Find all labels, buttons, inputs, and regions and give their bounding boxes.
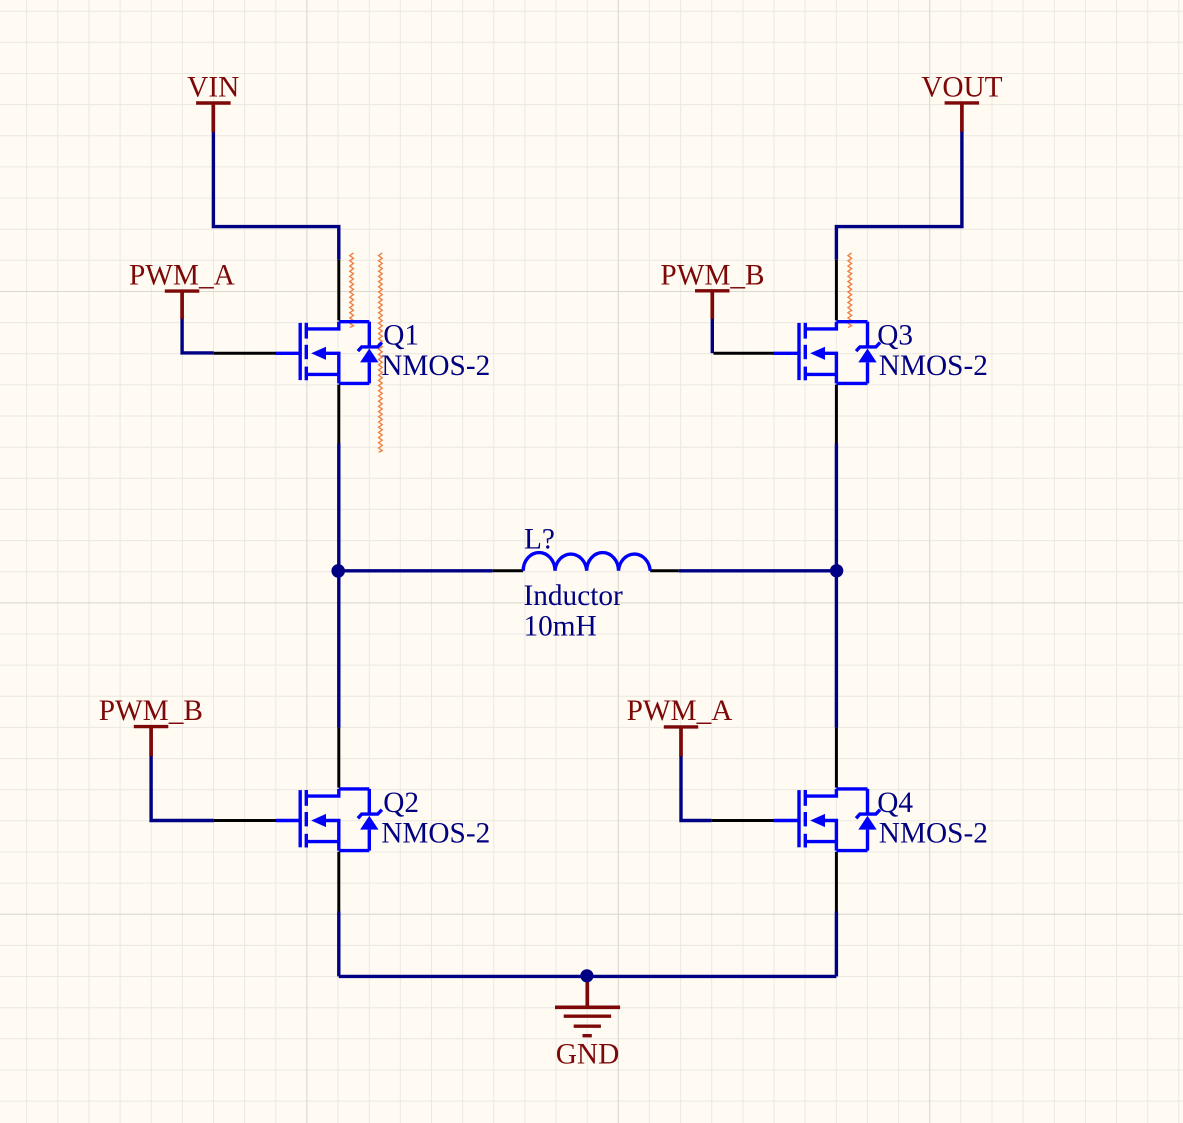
wire PWM_A to Q1 gate <box>182 318 214 353</box>
Q2 pin D <box>337 728 340 788</box>
svg-text:PWM_A: PWM_A <box>627 695 733 727</box>
node SW1 junction <box>331 564 345 578</box>
wire Q1 source to node SW1 <box>337 444 340 572</box>
svg-text:Q1: Q1 <box>383 320 419 352</box>
power port PWM_B (bottom) <box>134 727 169 757</box>
wire PWM_A to Q4 gate <box>681 755 711 821</box>
svg-text:L?: L? <box>524 524 555 556</box>
power port VOUT <box>945 103 980 132</box>
svg-text:PWM_B: PWM_B <box>660 259 764 291</box>
transistor Q4 <box>774 789 881 851</box>
inductor L1 <box>523 553 650 571</box>
svg-text:VIN: VIN <box>187 72 239 104</box>
Q2 pin S <box>337 852 340 912</box>
wire Q2 source to GND rail <box>337 912 340 977</box>
wire node SW1 to inductor pin 1 <box>339 569 493 572</box>
compile-error squiggle at Q1 drain <box>350 253 354 328</box>
wire GND rail <box>339 975 837 978</box>
Q2 pin G <box>214 819 276 822</box>
power port PWM_A (top) <box>165 291 200 319</box>
wire node SW2 to Q3 source <box>835 444 838 572</box>
wire PWM_B to Q2 gate <box>151 755 214 821</box>
wire node SW1 to Q2 drain <box>337 571 340 728</box>
Q1 pin G <box>214 352 276 355</box>
wire PWM_B to Q3 gate <box>711 318 714 354</box>
compile-error squiggle at Q3 drain <box>848 253 852 328</box>
transistor Q1 <box>276 322 382 384</box>
svg-text:NMOS-2: NMOS-2 <box>381 350 490 382</box>
svg-text:Q2: Q2 <box>383 787 419 819</box>
GND junction <box>580 969 593 982</box>
svg-text:PWM_A: PWM_A <box>129 259 235 291</box>
svg-text:VOUT: VOUT <box>921 72 1002 104</box>
svg-text:Q3: Q3 <box>877 320 913 352</box>
Q4 pin S <box>835 852 838 912</box>
transistor Q3 <box>774 322 881 384</box>
wire node SW2 to Q4 drain <box>835 571 838 728</box>
power port PWM_A (bottom) <box>664 727 698 756</box>
inductor pin 1 <box>493 569 524 572</box>
svg-text:NMOS-2: NMOS-2 <box>381 817 490 849</box>
svg-text:GND: GND <box>556 1039 619 1071</box>
Q4 pin G <box>711 819 773 822</box>
Q3 pin D <box>835 260 838 321</box>
ground GND <box>555 976 620 1036</box>
Q1 pin S <box>337 385 340 444</box>
Q3 pin S <box>835 385 838 444</box>
compile-error squiggle at Q1 body-diode <box>379 253 383 452</box>
power port VIN <box>196 103 231 132</box>
wire VOUT to Q3 drain <box>836 131 962 259</box>
wire Q4 source to GND rail <box>835 912 838 977</box>
Q4 pin D <box>835 728 838 788</box>
svg-text:10mH: 10mH <box>524 610 597 642</box>
Q1 pin D <box>337 260 340 321</box>
power port PWM_B (top) <box>695 291 730 319</box>
transistor Q2 <box>276 789 382 851</box>
Q3 pin G <box>714 352 774 355</box>
svg-text:NMOS-2: NMOS-2 <box>879 817 988 849</box>
svg-text:NMOS-2: NMOS-2 <box>879 350 988 382</box>
wire inductor pin 2 to node SW2 <box>679 569 837 572</box>
inductor pin 2 <box>650 569 679 572</box>
svg-text:PWM_B: PWM_B <box>99 695 203 727</box>
node SW2 junction <box>830 564 843 577</box>
wire VIN to Q1 drain <box>213 132 338 260</box>
svg-text:Inductor: Inductor <box>524 580 623 612</box>
svg-text:Q4: Q4 <box>877 787 913 819</box>
